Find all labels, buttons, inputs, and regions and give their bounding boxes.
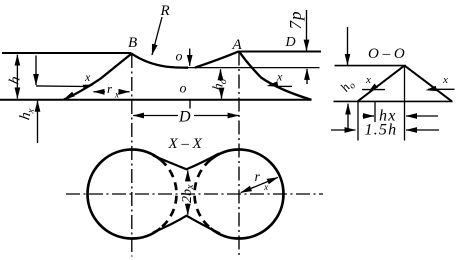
svg-text:O – O: O – O [368, 46, 405, 62]
O-O label h_o rotated [337, 76, 358, 96]
h_o down arrow [221, 88, 223, 99]
label h_o rotated [211, 77, 230, 92]
svg-text:h: h [6, 75, 23, 86]
x level line [36, 85, 86, 88]
profile flank up to B [64, 54, 132, 100]
arrowhead at flank bottom [64, 92, 75, 100]
A bump left flank [195, 51, 239, 67]
svg-text:r: r [107, 81, 113, 96]
svg-text:o: o [180, 82, 187, 97]
h_o up arrow [220, 69, 222, 81]
O-O 1.5h dimension left arrow [331, 129, 356, 131]
neck top outline [153, 154, 219, 170]
svg-text:B: B [128, 35, 137, 51]
svg-text:x: x [442, 74, 448, 86]
2bx up arrow [187, 170, 189, 181]
r_x radius leader in X-X [241, 177, 278, 192]
x tail line on A right flank [277, 85, 293, 87]
o tick below base line [189, 101, 191, 109]
O-O extension line left foot [357, 101, 359, 140]
O-O right x tick line [428, 88, 455, 90]
neck bottom outline [153, 216, 220, 234]
right circle hidden arc dashed [194, 160, 210, 228]
O-O extension line x point [374, 101, 376, 122]
O-O left x tick line [362, 89, 385, 91]
A bump right flank [239, 51, 312, 100]
svg-text:r: r [255, 170, 261, 185]
centerline through B [131, 54, 133, 257]
svg-text:A: A [232, 37, 243, 53]
o-level line [176, 67, 320, 69]
O-O apex centerline [404, 66, 406, 141]
O-O left x arrowhead [369, 84, 378, 92]
svg-text:x: x [84, 70, 91, 84]
svg-text:D: D [178, 109, 191, 126]
O-O right slope [405, 66, 453, 102]
O-O right x arrowhead [426, 86, 437, 91]
leader arrow R [152, 17, 162, 55]
svg-text:7p: 7p [286, 11, 305, 30]
top datum line right (A side) [239, 51, 321, 53]
x level arrow down [35, 56, 37, 86]
svg-text:R: R [160, 3, 170, 19]
label 7p rotated [286, 11, 305, 30]
svg-text:ho: ho [211, 77, 230, 92]
centerline through A [238, 52, 240, 257]
svg-text:x: x [365, 74, 371, 86]
left circle solid arc [88, 150, 161, 239]
bottom base line [0, 99, 312, 101]
O-O bottom line [334, 100, 453, 102]
svg-text:X – X: X – X [168, 136, 203, 152]
svg-text:D: D [285, 35, 296, 50]
7p arrow down [306, 10, 308, 51]
r_x dimension [94, 91, 106, 93]
right circle solid arc [210, 150, 283, 239]
label h_x rotated [17, 106, 37, 121]
O-O hx dimension left arrow [363, 115, 375, 117]
O-O hx dimension right arrow [406, 115, 438, 117]
svg-text:1.5h: 1.5h [365, 122, 398, 139]
h dimension arrows [16, 55, 18, 99]
svg-text:hx: hx [17, 106, 37, 121]
svg-text:x: x [276, 70, 283, 84]
O-O h_o up arrow [347, 104, 349, 130]
h_x up arrow [37, 101, 39, 143]
X-X horizontal centerline [66, 193, 323, 195]
top datum line left (B side) [2, 52, 132, 54]
up arrow to o-level right end [306, 69, 308, 84]
dip curve R between B and A [132, 54, 189, 68]
O-O h_o down arrow [347, 27, 349, 65]
svg-text:ho: ho [337, 76, 358, 96]
O-O top line [335, 65, 407, 67]
label 2bx rotated [180, 184, 196, 203]
svg-text:x: x [114, 90, 119, 100]
O-O left slope [358, 66, 405, 102]
2bx down arrow [187, 204, 189, 215]
left circle hidden arc dashed [161, 160, 177, 228]
svg-text:o: o [176, 50, 183, 65]
O-O 1.5h dimension right arrow [406, 129, 439, 131]
o arrow down to dip [189, 49, 191, 66]
svg-text:2bx: 2bx [180, 184, 196, 203]
D dimension (bottom) [133, 115, 178, 117]
svg-text:x: x [263, 183, 269, 193]
x arrowhead onto flank [83, 85, 94, 90]
x arrowhead on A right flank [267, 81, 279, 86]
